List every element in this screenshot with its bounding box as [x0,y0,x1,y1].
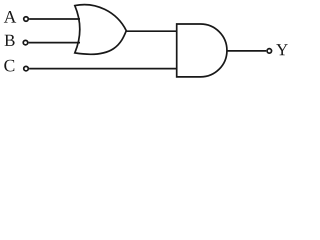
wire C [29,68,177,70]
terminal Y [267,49,272,54]
wire Y output [227,50,266,52]
node A label [4,11,16,23]
wire B [29,42,80,44]
terminal B [23,40,28,45]
node C label [4,60,14,72]
AND gate U2 [177,24,227,77]
terminal A [24,17,29,22]
wire OR output to AND input [126,30,177,32]
OR gate U1 [75,5,127,55]
terminal C [24,66,29,71]
node B label [5,35,15,46]
wire A [29,18,80,20]
node Y label [276,44,288,55]
